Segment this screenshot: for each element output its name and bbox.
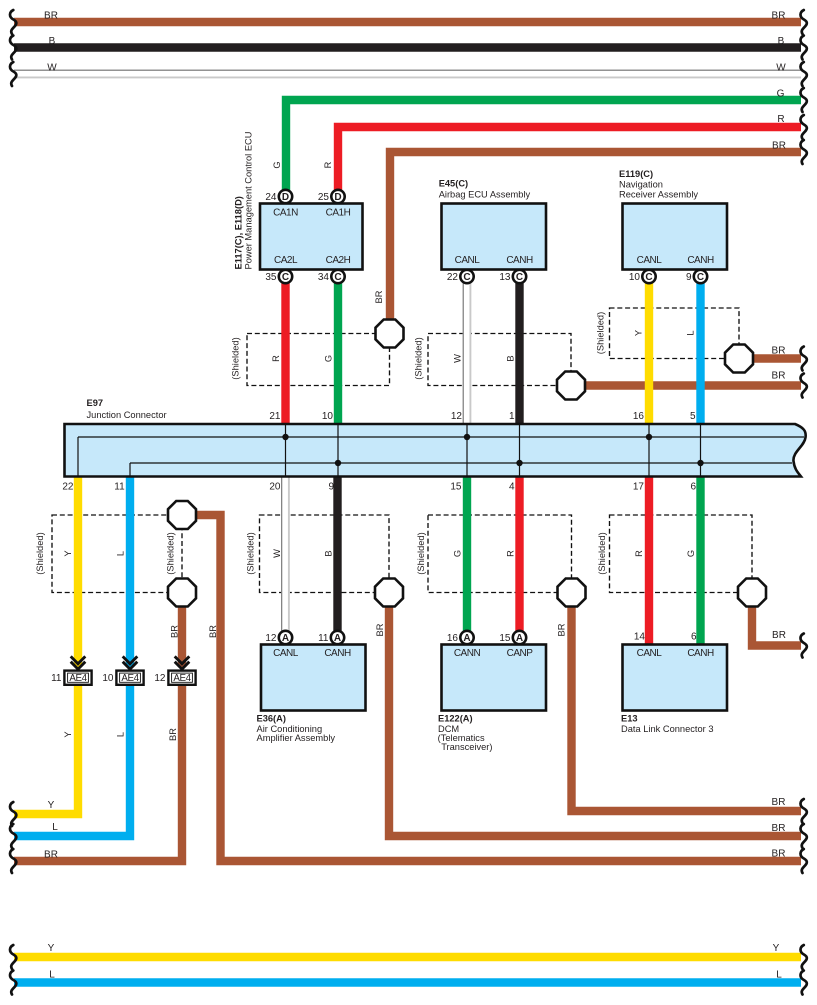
wire Y AE4-11 to left break [14, 685, 78, 814]
wire BR from shield ground O3 to right break [753, 354, 801, 362]
wire Y junction pin22 down to AE4-11 [74, 476, 82, 667]
svg-text:(Shielded): (Shielded) [595, 312, 605, 354]
svg-text:CANH: CANH [687, 648, 714, 659]
svg-text:BR: BR [772, 345, 786, 356]
svg-text:L: L [115, 732, 125, 737]
svg-text:W: W [776, 62, 786, 73]
shield ground octagon O1 [376, 320, 404, 348]
svg-text:12: 12 [451, 411, 463, 422]
svg-text:(Shielded): (Shielded) [414, 337, 424, 379]
svg-text:C: C [334, 272, 341, 283]
wire W top trunk [14, 70, 801, 79]
svg-text:24: 24 [265, 192, 277, 203]
connector AE4 pin 12 [168, 656, 195, 684]
svg-text:CANN: CANN [454, 648, 481, 659]
junction connector E97 body [65, 424, 806, 477]
break symbol right of BR O2 [800, 374, 806, 398]
shield box E45 [428, 334, 571, 386]
svg-text:BR: BR [169, 625, 179, 638]
svg-text:(Shielded): (Shielded) [231, 337, 241, 379]
junction dot pin1 [516, 460, 522, 466]
svg-text:Y: Y [48, 800, 55, 811]
svg-text:16: 16 [633, 411, 645, 422]
pin 13 C [513, 270, 526, 283]
wire R from right break to E117 pin 25 [338, 127, 801, 192]
svg-text:B: B [323, 550, 333, 556]
wire W junction pin20 to E36 pin12 [281, 476, 290, 631]
break symbol right L bottom [800, 971, 806, 995]
wire L bottom trunk [14, 978, 801, 986]
svg-text:R: R [634, 550, 644, 557]
svg-text:12: 12 [154, 673, 166, 684]
svg-text:BR: BR [772, 370, 786, 381]
svg-text:20: 20 [269, 481, 281, 492]
junction dot pin16 [646, 434, 652, 440]
svg-text:BR: BR [168, 728, 178, 741]
break symbol left BR [10, 849, 16, 873]
break symbol right Y bottom [800, 945, 806, 969]
svg-text:Airbag ECU Assembly: Airbag ECU Assembly [439, 189, 531, 199]
svg-text:(Shielded): (Shielded) [246, 532, 256, 574]
shield box E117 [247, 334, 390, 386]
svg-text:1: 1 [509, 411, 515, 422]
shield ground octagon O4 [168, 501, 196, 529]
pin 34 C [331, 270, 344, 283]
svg-text:17: 17 [633, 481, 645, 492]
internal CANH bus line [130, 462, 792, 464]
pin 12 A [279, 631, 292, 644]
wire L E119 pin9 to junction pin5 [696, 281, 704, 425]
svg-text:CA1N: CA1N [273, 208, 298, 219]
shield box E119 [610, 308, 740, 359]
wire B top trunk [14, 43, 801, 51]
svg-text:Y: Y [63, 550, 73, 556]
break symbol right of BR2 [800, 140, 806, 164]
svg-text:C: C [463, 272, 470, 283]
svg-text:Y: Y [633, 330, 643, 336]
svg-text:25: 25 [318, 192, 330, 203]
svg-text:35: 35 [265, 272, 277, 283]
svg-text:BR: BR [772, 630, 786, 641]
svg-text:A: A [463, 633, 470, 644]
connector AE4 pin 11 [64, 656, 91, 684]
svg-text:10: 10 [102, 673, 114, 684]
shield ground octagon O2 [557, 372, 585, 400]
wire BR top trunk [14, 18, 801, 26]
break symbol right BR y836 [800, 824, 806, 848]
svg-text:C: C [282, 272, 289, 283]
svg-text:E122(A): E122(A) [438, 713, 473, 723]
svg-text:BR: BR [772, 10, 786, 21]
svg-text:B: B [49, 36, 56, 47]
svg-text:G: G [777, 88, 785, 99]
shield ground octagon O6 [375, 579, 403, 607]
break symbol left Y bottom [10, 945, 16, 969]
svg-text:CANL: CANL [455, 255, 481, 266]
junction dot pin5 [697, 460, 703, 466]
svg-text:G: G [324, 355, 334, 362]
svg-text:14: 14 [634, 631, 646, 642]
svg-text:CANP: CANP [507, 648, 534, 659]
svg-text:(Shielded): (Shielded) [166, 532, 176, 574]
svg-text:CANL: CANL [637, 255, 663, 266]
shield box E36 [260, 515, 390, 593]
break symbol right BR y861 [800, 849, 806, 873]
svg-text:R: R [505, 550, 515, 557]
connector AE4 pin 10 [116, 656, 143, 684]
svg-text:CANL: CANL [273, 648, 299, 659]
shield ground octagon O7 [558, 579, 586, 607]
svg-text:11: 11 [318, 633, 329, 644]
svg-text:A: A [516, 633, 523, 644]
pin 16 A [460, 631, 473, 644]
svg-text:Amplifier Assembly: Amplifier Assembly [257, 733, 336, 743]
internal stub pin11 [129, 463, 131, 476]
svg-text:16: 16 [447, 633, 459, 644]
svg-text:CA2L: CA2L [274, 255, 298, 266]
junction dot pin12 [464, 434, 470, 440]
svg-text:G: G [272, 161, 282, 168]
svg-text:(Shielded): (Shielded) [597, 532, 607, 574]
svg-text:BR: BR [772, 823, 786, 834]
shield box E122 [428, 515, 572, 593]
svg-text:BR: BR [772, 849, 786, 860]
svg-text:R: R [323, 161, 333, 168]
svg-text:E97: E97 [87, 398, 104, 408]
junction dot pin21 [282, 434, 288, 440]
svg-text:15: 15 [499, 633, 511, 644]
svg-text:D: D [282, 192, 289, 203]
svg-text:BR: BR [772, 141, 786, 152]
wire BR from shield ground O8 to right break [752, 607, 801, 646]
svg-text:CANH: CANH [687, 255, 714, 266]
break symbol right of W top [800, 62, 806, 86]
internal stub pin12-15 [466, 424, 468, 476]
svg-text:6: 6 [691, 631, 697, 642]
svg-text:(Shielded): (Shielded) [35, 532, 45, 574]
svg-text:11: 11 [51, 673, 62, 684]
internal stub pin21-20 [285, 424, 287, 476]
wire BR from shield ground O5 to AE4-12 [178, 607, 186, 668]
pin 11 A [331, 631, 344, 644]
svg-text:G: G [452, 550, 462, 557]
break symbol right of G [800, 88, 806, 112]
svg-text:Receiver Assembly: Receiver Assembly [619, 189, 698, 199]
svg-text:G: G [686, 550, 696, 557]
svg-text:Data Link Connector 3: Data Link Connector 3 [621, 724, 714, 734]
pin 25 D [331, 190, 344, 203]
internal stub pin16-17 [648, 424, 650, 476]
wire BR from right break to shield ground O1 [390, 152, 801, 321]
svg-text:L: L [116, 551, 126, 556]
svg-text:E36(A): E36(A) [257, 713, 286, 723]
shield ground octagon O8 [738, 579, 766, 607]
wire BR from shield ground O4 to bottom right break [196, 515, 801, 861]
ECU E117 Power Management Control ECU [260, 204, 363, 270]
svg-text:C: C [697, 272, 704, 283]
break symbol left of W top [10, 62, 16, 86]
pin 15 A [513, 631, 526, 644]
svg-text:BR: BR [374, 290, 384, 303]
svg-text:W: W [452, 354, 462, 363]
svg-text:Navigation: Navigation [619, 180, 663, 190]
svg-text:10: 10 [629, 272, 641, 283]
svg-text:34: 34 [318, 272, 330, 283]
wire W E45 pin22 to junction pin12 [463, 283, 472, 425]
svg-text:13: 13 [499, 272, 511, 283]
svg-text:CA2H: CA2H [326, 255, 351, 266]
svg-text:L: L [52, 822, 58, 833]
svg-text:C: C [516, 272, 523, 283]
wire BR from shield ground O2 to right break [585, 381, 801, 389]
pin 10 C [642, 270, 655, 283]
svg-text:A: A [282, 633, 289, 644]
svg-text:L: L [685, 330, 695, 335]
pin 24 D [279, 190, 292, 203]
break symbol left of BR top [10, 10, 16, 34]
svg-text:E45(C): E45(C) [439, 178, 468, 188]
svg-text:D: D [334, 192, 341, 203]
svg-text:15: 15 [450, 481, 462, 492]
shield box AE4 group [52, 515, 182, 593]
wire G junction pin6 to E13 pin6 [696, 476, 704, 645]
svg-text:6: 6 [690, 481, 696, 492]
wire BR from shield ground O7 to right break [572, 607, 802, 812]
internal stub pin10-9 [337, 424, 339, 476]
internal stub pin5-6 [700, 424, 702, 476]
svg-text:CANL: CANL [637, 648, 663, 659]
wire G from right break to E117 pin 24 [286, 100, 801, 192]
shield ground octagon O5 [168, 579, 196, 607]
wire B junction pin9 to E36 pin11 [333, 476, 341, 632]
internal CANL bus line [78, 436, 804, 438]
wire BR from shield ground O6 to right break [389, 607, 801, 837]
svg-text:R: R [777, 114, 784, 125]
pin 22 C [460, 270, 473, 283]
svg-text:22: 22 [62, 481, 74, 492]
svg-text:Y: Y [48, 943, 55, 954]
svg-text:L: L [776, 969, 782, 980]
svg-text:BR: BR [44, 850, 58, 861]
break symbol right of BR O8 [800, 634, 806, 658]
ECU E45 Airbag ECU Assembly [442, 204, 547, 270]
svg-text:Transceiver): Transceiver) [441, 742, 492, 752]
shield ground octagon O3 [725, 345, 753, 373]
svg-text:Y: Y [773, 943, 780, 954]
connector E13 Data Link Connector 3 [623, 645, 728, 711]
svg-text:9: 9 [328, 481, 334, 492]
svg-text:BR: BR [772, 797, 786, 808]
break symbol left L bottom [10, 971, 16, 995]
svg-text:BR: BR [375, 623, 385, 636]
wire Y E119 pin10 to junction pin16 [645, 281, 653, 425]
svg-text:Junction Connector: Junction Connector [87, 410, 167, 420]
svg-text:10: 10 [322, 411, 334, 422]
svg-text:CANH: CANH [506, 255, 533, 266]
svg-text:CANH: CANH [324, 648, 351, 659]
pin 9 C [694, 270, 707, 283]
wire B E45 pin13 to junction pin1 [515, 281, 523, 425]
svg-text:Y: Y [63, 731, 73, 737]
break symbol right BR y811 [800, 799, 806, 823]
wire R junction pin17 to E13 pin14 [645, 476, 653, 645]
wire BR AE4-12 to left break [14, 685, 182, 861]
wire R junction pin4 to E122 pin15 [515, 476, 523, 632]
ECU E36 Air Conditioning Amplifier Assembly [261, 645, 366, 711]
svg-text:9: 9 [686, 272, 692, 283]
internal stub pin22 [77, 437, 79, 476]
svg-text:B: B [778, 36, 785, 47]
break symbol left of B top [10, 36, 16, 60]
pin 35 C [279, 270, 292, 283]
break symbol right of BR top [800, 10, 806, 34]
svg-text:BR: BR [44, 10, 58, 21]
svg-text:E117(C), E118(D): E117(C), E118(D) [234, 196, 244, 269]
junction dot pin10 [335, 460, 341, 466]
svg-text:5: 5 [690, 411, 696, 422]
svg-text:R: R [271, 355, 281, 362]
break symbol left Y [10, 802, 16, 826]
svg-text:CA1H: CA1H [326, 208, 351, 219]
break symbol left L [10, 824, 16, 848]
svg-text:W: W [272, 549, 282, 558]
svg-text:BR: BR [208, 625, 218, 638]
break symbol right of BR O3 [800, 347, 806, 371]
svg-text:B: B [505, 355, 515, 361]
svg-text:W: W [47, 62, 57, 73]
wire G E117 pin34 to junction pin10 [334, 281, 342, 425]
svg-text:4: 4 [509, 481, 515, 492]
svg-text:E13: E13 [621, 713, 638, 723]
svg-text:E119(C): E119(C) [619, 169, 653, 179]
svg-text:21: 21 [269, 411, 281, 422]
internal stub pin1-4 [519, 424, 521, 476]
svg-text:(Shielded): (Shielded) [416, 532, 426, 574]
svg-text:12: 12 [265, 633, 277, 644]
svg-text:11: 11 [114, 481, 125, 492]
svg-text:A: A [334, 633, 341, 644]
wire G junction pin15 to E122 pin16 [463, 476, 471, 632]
wire Y bottom trunk [14, 953, 801, 961]
ECU E122 DCM Telematics Transceiver [442, 645, 547, 711]
wire L AE4-10 to left break [14, 685, 130, 836]
svg-text:22: 22 [447, 272, 459, 283]
wire L junction pin11 down to AE4-10 [126, 476, 134, 667]
ECU E119 Navigation Receiver Assembly [623, 204, 728, 270]
shield box E13 [610, 515, 753, 593]
break symbol right of R [800, 115, 806, 139]
svg-text:Power Management Control ECU: Power Management Control ECU [244, 132, 254, 270]
svg-text:L: L [49, 969, 55, 980]
wire R E117 pin35 to junction pin21 [281, 281, 289, 425]
svg-text:C: C [645, 272, 652, 283]
break symbol right of B top [800, 36, 806, 60]
svg-text:BR: BR [556, 623, 566, 636]
